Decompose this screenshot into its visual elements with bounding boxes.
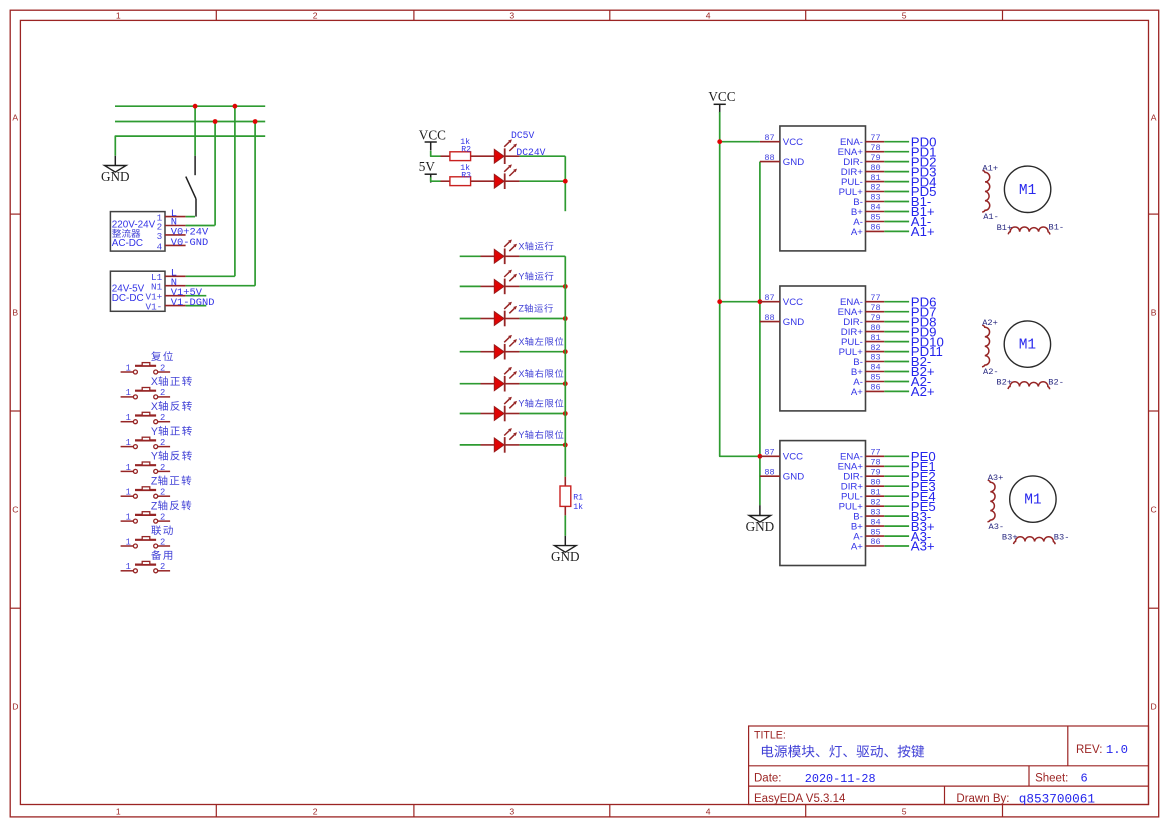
wire DC24V net: [520, 155, 566, 157]
pin 80 DIR+ / net PD9: [866, 331, 885, 333]
svg-text:B: B: [12, 308, 18, 318]
svg-text:A: A: [1151, 113, 1157, 123]
push button Y轴反转: [121, 462, 171, 473]
wire to ground: [114, 156, 116, 166]
svg-text:B1+: B1+: [997, 223, 1013, 233]
svg-text:D: D: [1151, 702, 1157, 712]
svg-text:Sheet:: Sheet:: [1035, 773, 1068, 785]
wire L1 to L rail: [186, 275, 235, 277]
ground GND: [555, 546, 577, 553]
svg-text:C: C: [12, 505, 18, 515]
pin 85 A- / net A1-: [866, 221, 885, 223]
push button 备用: [121, 561, 171, 572]
svg-text:2: 2: [313, 807, 318, 817]
svg-text:X: X: [151, 401, 158, 413]
svg-text:R1: R1: [573, 493, 583, 502]
svg-text:VCC: VCC: [783, 297, 803, 308]
LED DC24V: [494, 164, 517, 189]
svg-text:1.0: 1.0: [1106, 743, 1128, 757]
wire: [520, 180, 566, 182]
wire to ground: [564, 536, 566, 546]
LED X轴左限位: [494, 335, 517, 360]
wire: [564, 506, 566, 515]
svg-text:86: 86: [870, 383, 880, 393]
pin 83 B- / net B2-: [866, 361, 885, 363]
svg-text:GND: GND: [783, 317, 804, 328]
svg-text:A1+: A1+: [911, 224, 935, 239]
svg-text:B2-: B2-: [1048, 377, 1064, 387]
wire: [505, 155, 520, 157]
pin 81 PUL- / net PD4: [866, 181, 885, 183]
pin 87 VCC: [760, 141, 780, 143]
motor M1 (axis 1): [1004, 166, 1050, 212]
wire pin1 to switch: [186, 216, 195, 218]
driver module U3: [780, 441, 866, 566]
wire: [460, 444, 481, 446]
push button X轴正转: [121, 388, 171, 399]
push button 联动: [121, 537, 171, 548]
motor M1 (axis 2): [1004, 321, 1050, 367]
junction: [563, 349, 568, 354]
svg-text:M1: M1: [1019, 338, 1036, 354]
pin 79 DIR- / net PD8: [866, 321, 885, 323]
junction: [213, 119, 218, 124]
pin 82 PUL+ / net PE5: [866, 505, 885, 507]
svg-text:4: 4: [706, 807, 711, 817]
svg-text:M1: M1: [1019, 183, 1036, 199]
ground GND: [105, 166, 127, 173]
sheet title: [762, 745, 773, 757]
svg-text:2: 2: [313, 11, 318, 21]
svg-text:4: 4: [706, 11, 711, 21]
pin 86 A+ / net A2+: [866, 390, 885, 392]
resistor R3: [450, 177, 471, 186]
pin 85 A- / net A2-: [866, 381, 885, 383]
wire pin: [505, 351, 520, 353]
pin 88 GND: [760, 321, 780, 323]
winding B3: [1014, 537, 1056, 545]
pin 85 A- / net A3-: [866, 535, 885, 537]
wire branch U2: [720, 301, 760, 303]
svg-text:GND: GND: [551, 549, 580, 564]
wire pin: [481, 383, 495, 385]
svg-text:84: 84: [870, 517, 880, 527]
svg-text:AC-DC: AC-DC: [112, 238, 143, 249]
svg-text:77: 77: [870, 133, 880, 143]
pin 83 B- / net B3-: [866, 515, 885, 517]
svg-text:GND: GND: [746, 519, 775, 534]
push button Z轴正转: [121, 487, 171, 498]
svg-text:3: 3: [509, 11, 514, 21]
wire: [460, 413, 481, 415]
svg-text:1: 1: [126, 363, 131, 373]
wire: [564, 515, 566, 535]
svg-text:B: B: [1151, 308, 1157, 318]
svg-text:X: X: [151, 376, 158, 388]
wire pin: [505, 255, 520, 257]
wire V1+5V stub: [186, 295, 207, 297]
label 联动: [151, 525, 161, 535]
wire: [520, 318, 566, 320]
svg-text:82: 82: [870, 497, 880, 507]
module AC-DC 220V-24V: [110, 212, 165, 252]
driver module U2: [780, 286, 866, 411]
pin R2.1: [441, 155, 450, 157]
wire N rail: [115, 121, 265, 123]
svg-text:A+: A+: [851, 227, 863, 238]
wire: [460, 285, 481, 287]
svg-text:1: 1: [126, 537, 131, 547]
winding A1: [982, 170, 990, 212]
junction: [717, 299, 722, 304]
svg-text:84: 84: [870, 203, 880, 213]
svg-text:86: 86: [870, 223, 880, 233]
svg-text:1: 1: [126, 413, 131, 423]
svg-text:2: 2: [160, 562, 165, 572]
pin 81 PUL- / net PE4: [866, 495, 885, 497]
svg-text:A3+: A3+: [911, 539, 935, 554]
junction: [193, 104, 198, 109]
junction: [758, 454, 763, 459]
svg-text:GND: GND: [783, 472, 804, 483]
wire pin2 to N rail: [186, 225, 215, 227]
pin 80 DIR+ / net PD3: [866, 171, 885, 173]
svg-text:6: 6: [1081, 772, 1088, 786]
wire: [460, 255, 481, 257]
svg-text:A1+: A1+: [982, 163, 998, 173]
svg-text:B3+: B3+: [1002, 533, 1018, 543]
svg-text:1k: 1k: [573, 502, 583, 512]
svg-text:2: 2: [160, 388, 165, 398]
svg-text:Y: Y: [518, 272, 524, 282]
svg-text:78: 78: [870, 303, 880, 313]
pin 86 A+ / net A3+: [866, 545, 885, 547]
wire switch drop: [194, 106, 196, 156]
svg-text:82: 82: [870, 183, 880, 193]
svg-text:q853700061: q853700061: [1019, 791, 1095, 806]
module DC-DC 24V-5V: [110, 271, 165, 311]
svg-text:C: C: [1151, 505, 1157, 515]
pin 77 ENA- / net PD6: [866, 301, 885, 303]
wire pin: [481, 444, 495, 446]
svg-text:87: 87: [764, 448, 774, 458]
pin 83 B- / net B1-: [866, 201, 885, 203]
junction: [563, 316, 568, 321]
svg-text:88: 88: [764, 467, 774, 477]
svg-text:VCC: VCC: [708, 89, 735, 104]
LED Y轴左限位: [494, 397, 517, 422]
wire: [520, 383, 566, 385]
svg-text:2: 2: [160, 488, 165, 498]
svg-text:A2+: A2+: [911, 384, 935, 399]
wire pin: [505, 444, 520, 446]
pin 81 PUL- / net PD10: [866, 341, 885, 343]
svg-text:2: 2: [160, 438, 165, 448]
motor M1 (axis 3): [1010, 476, 1056, 522]
svg-text:DC5V: DC5V: [511, 130, 534, 141]
wire pin: [505, 318, 520, 320]
ground GND: [749, 516, 771, 523]
pin 84 B+ / net B1+: [866, 211, 885, 213]
svg-text:81: 81: [870, 173, 880, 183]
svg-text:2: 2: [160, 363, 165, 373]
pin R3.1: [441, 180, 450, 182]
junction: [563, 443, 568, 448]
svg-text:2: 2: [160, 513, 165, 523]
wire VCC bus: [720, 112, 760, 456]
svg-text:GND: GND: [783, 157, 804, 168]
svg-text:Y: Y: [518, 430, 524, 440]
driver module U1: [780, 126, 866, 251]
wire: [460, 351, 481, 353]
svg-text:1: 1: [126, 513, 131, 523]
svg-text:Y: Y: [518, 399, 524, 409]
svg-text:A+: A+: [851, 387, 863, 398]
title block: [749, 726, 1149, 805]
svg-text:5V: 5V: [419, 159, 436, 174]
wire pin87 bus: [759, 162, 761, 506]
wire pin: [481, 285, 495, 287]
svg-text:VCC: VCC: [419, 127, 446, 142]
svg-text:1: 1: [126, 463, 131, 473]
svg-text:85: 85: [870, 373, 880, 383]
power flag: [425, 142, 437, 150]
svg-text:EasyEDA V5.3.14: EasyEDA V5.3.14: [754, 793, 846, 805]
push button Z轴反转: [121, 512, 171, 523]
resistor R2: [450, 152, 471, 161]
svg-text:V1-DGND: V1-DGND: [171, 297, 215, 309]
wire N to pin N1: [254, 122, 256, 286]
svg-text:2: 2: [160, 413, 165, 423]
svg-text:82: 82: [870, 343, 880, 353]
wire: [520, 413, 566, 415]
resistor R1: [560, 486, 571, 506]
pin 88 GND: [760, 161, 780, 163]
wire: [520, 444, 566, 446]
svg-text:5: 5: [902, 807, 907, 817]
wire L rail: [115, 105, 265, 107]
svg-text:Drawn By:: Drawn By:: [956, 793, 1009, 805]
winding B1: [1008, 227, 1050, 235]
pin 77 ENA- / net PD0: [866, 141, 885, 143]
wire PE rail: [115, 136, 265, 156]
wire LED bus: [564, 256, 566, 476]
pin 82 PUL+ / net PD11: [866, 351, 885, 353]
wire: [564, 477, 566, 486]
wire pin: [505, 413, 520, 415]
junction: [563, 381, 568, 386]
LED Y轴右限位: [494, 428, 517, 453]
svg-text:88: 88: [764, 153, 774, 163]
svg-text:1: 1: [126, 388, 131, 398]
junction: [563, 179, 568, 184]
junction: [253, 119, 258, 124]
svg-text:85: 85: [870, 527, 880, 537]
wire R3 to LED: [471, 180, 495, 182]
LED DC5V: [494, 139, 517, 164]
svg-text:1: 1: [116, 807, 121, 817]
winding B2: [1008, 382, 1050, 390]
svg-text:3: 3: [157, 231, 163, 242]
svg-text:A2-: A2-: [983, 367, 999, 377]
pin 87 VCC: [760, 455, 780, 457]
svg-text:2020-11-28: 2020-11-28: [805, 772, 876, 786]
svg-text:83: 83: [870, 193, 880, 203]
wire N1 to N rail: [186, 285, 256, 287]
LED Z轴运行: [494, 302, 517, 327]
wire vertical: [564, 156, 566, 211]
svg-text:78: 78: [870, 458, 880, 468]
wire N to pin 2: [214, 122, 216, 226]
svg-text:A+: A+: [851, 541, 863, 552]
pin 78 ENA+ / net PD7: [866, 311, 885, 313]
svg-text:81: 81: [870, 487, 880, 497]
svg-text:87: 87: [764, 293, 774, 303]
push button 复位: [121, 363, 171, 374]
wire branch U1: [720, 141, 760, 143]
pin 80 DIR+ / net PE3: [866, 485, 885, 487]
svg-text:1: 1: [126, 438, 131, 448]
junction: [563, 411, 568, 416]
push button X轴反转: [121, 412, 171, 423]
LED X轴运行: [494, 239, 517, 264]
pin 79 DIR- / net PD2: [866, 161, 885, 163]
svg-text:Z: Z: [151, 475, 158, 487]
wire V1-DGND stub: [186, 305, 207, 307]
pin 88 GND: [760, 475, 780, 477]
wire L to pin L1: [234, 106, 236, 276]
svg-text:83: 83: [870, 353, 880, 363]
LED Y轴运行: [494, 270, 517, 295]
svg-text:REV:: REV:: [1076, 744, 1102, 756]
junction: [563, 284, 568, 289]
wire: [520, 351, 566, 353]
pin 87 VCC: [760, 301, 780, 303]
wire pin: [481, 351, 495, 353]
svg-text:Y: Y: [151, 451, 158, 463]
pin 78 ENA+ / net PE1: [866, 465, 885, 467]
svg-text:79: 79: [870, 313, 880, 323]
svg-text:80: 80: [870, 163, 880, 173]
svg-text:85: 85: [870, 213, 880, 223]
winding A3: [988, 480, 996, 522]
svg-text:1: 1: [116, 11, 121, 21]
svg-text:83: 83: [870, 507, 880, 517]
svg-text:A: A: [12, 113, 18, 123]
junction: [717, 139, 722, 144]
svg-text:81: 81: [870, 333, 880, 343]
svg-text:77: 77: [870, 293, 880, 303]
svg-text:2: 2: [160, 537, 165, 547]
svg-text:Y: Y: [151, 426, 158, 438]
svg-text:79: 79: [870, 467, 880, 477]
wire R2 to LED: [471, 155, 495, 157]
pin 84 B+ / net B2+: [866, 371, 885, 373]
svg-text:1: 1: [126, 562, 131, 572]
svg-text:R2: R2: [461, 146, 471, 155]
svg-text:5: 5: [902, 11, 907, 21]
wire pin: [481, 255, 495, 257]
junction: [233, 104, 238, 109]
LED X轴右限位: [494, 367, 517, 392]
svg-text:GND: GND: [101, 169, 130, 184]
wire 5V to R3: [431, 177, 441, 181]
pin 78 ENA+ / net PD1: [866, 151, 885, 153]
svg-text:A3-: A3-: [989, 522, 1005, 532]
svg-text:M1: M1: [1024, 493, 1041, 509]
svg-text:R3: R3: [461, 171, 471, 180]
svg-text:84: 84: [870, 363, 880, 373]
label 备用: [151, 550, 161, 560]
wire pin: [481, 318, 495, 320]
power flag: [425, 174, 437, 182]
svg-text:Z: Z: [151, 500, 158, 512]
svg-text:77: 77: [870, 448, 880, 458]
svg-text:3: 3: [509, 807, 514, 817]
svg-text:X: X: [518, 242, 524, 252]
pin 79 DIR- / net PE2: [866, 475, 885, 477]
svg-text:1: 1: [126, 488, 131, 498]
pin 77 ENA- / net PE0: [866, 455, 885, 457]
svg-text:80: 80: [870, 323, 880, 333]
svg-text:Date:: Date:: [754, 773, 782, 785]
wire: [520, 255, 566, 257]
svg-text:A3+: A3+: [988, 473, 1004, 483]
pin 82 PUL+ / net PD5: [866, 191, 885, 193]
svg-text:80: 80: [870, 477, 880, 487]
switch S1: [186, 156, 196, 217]
svg-text:86: 86: [870, 537, 880, 547]
winding A2: [982, 325, 990, 367]
svg-text:D: D: [12, 702, 18, 712]
wire to ground: [759, 505, 761, 515]
svg-text:A1-: A1-: [983, 212, 999, 222]
svg-text:X: X: [518, 337, 524, 347]
label 复位: [151, 351, 161, 361]
svg-text:DC24V: DC24V: [516, 147, 545, 158]
wire VCC to R2: [431, 151, 441, 156]
svg-text:VCC: VCC: [783, 452, 803, 463]
svg-text:B3-: B3-: [1054, 532, 1070, 542]
svg-text:79: 79: [870, 153, 880, 163]
wire pin: [505, 383, 520, 385]
svg-text:87: 87: [764, 133, 774, 143]
wire: [460, 318, 481, 320]
junction: [758, 299, 763, 304]
svg-text:4: 4: [157, 241, 163, 252]
wire: [460, 383, 481, 385]
svg-text:B1-: B1-: [1049, 223, 1065, 233]
push button Y轴正转: [121, 437, 171, 448]
svg-text:VCC: VCC: [783, 137, 803, 148]
wire pin: [505, 285, 520, 287]
svg-text:V1-: V1-: [146, 301, 163, 312]
pin 84 B+ / net B3+: [866, 525, 885, 527]
wire: [520, 285, 566, 287]
pin 86 A+ / net A1+: [866, 230, 885, 232]
svg-text:A2+: A2+: [982, 318, 998, 328]
power flag: [714, 104, 726, 112]
svg-text:X: X: [518, 369, 524, 379]
svg-text:Z: Z: [518, 304, 524, 314]
svg-text:TITLE:: TITLE:: [754, 730, 786, 742]
wire: [505, 180, 520, 182]
svg-text:88: 88: [764, 313, 774, 323]
svg-text:DC-DC: DC-DC: [112, 293, 144, 304]
svg-text:B2+: B2+: [996, 378, 1012, 388]
svg-text:2: 2: [160, 463, 165, 473]
svg-text:V0-GND: V0-GND: [171, 237, 208, 249]
